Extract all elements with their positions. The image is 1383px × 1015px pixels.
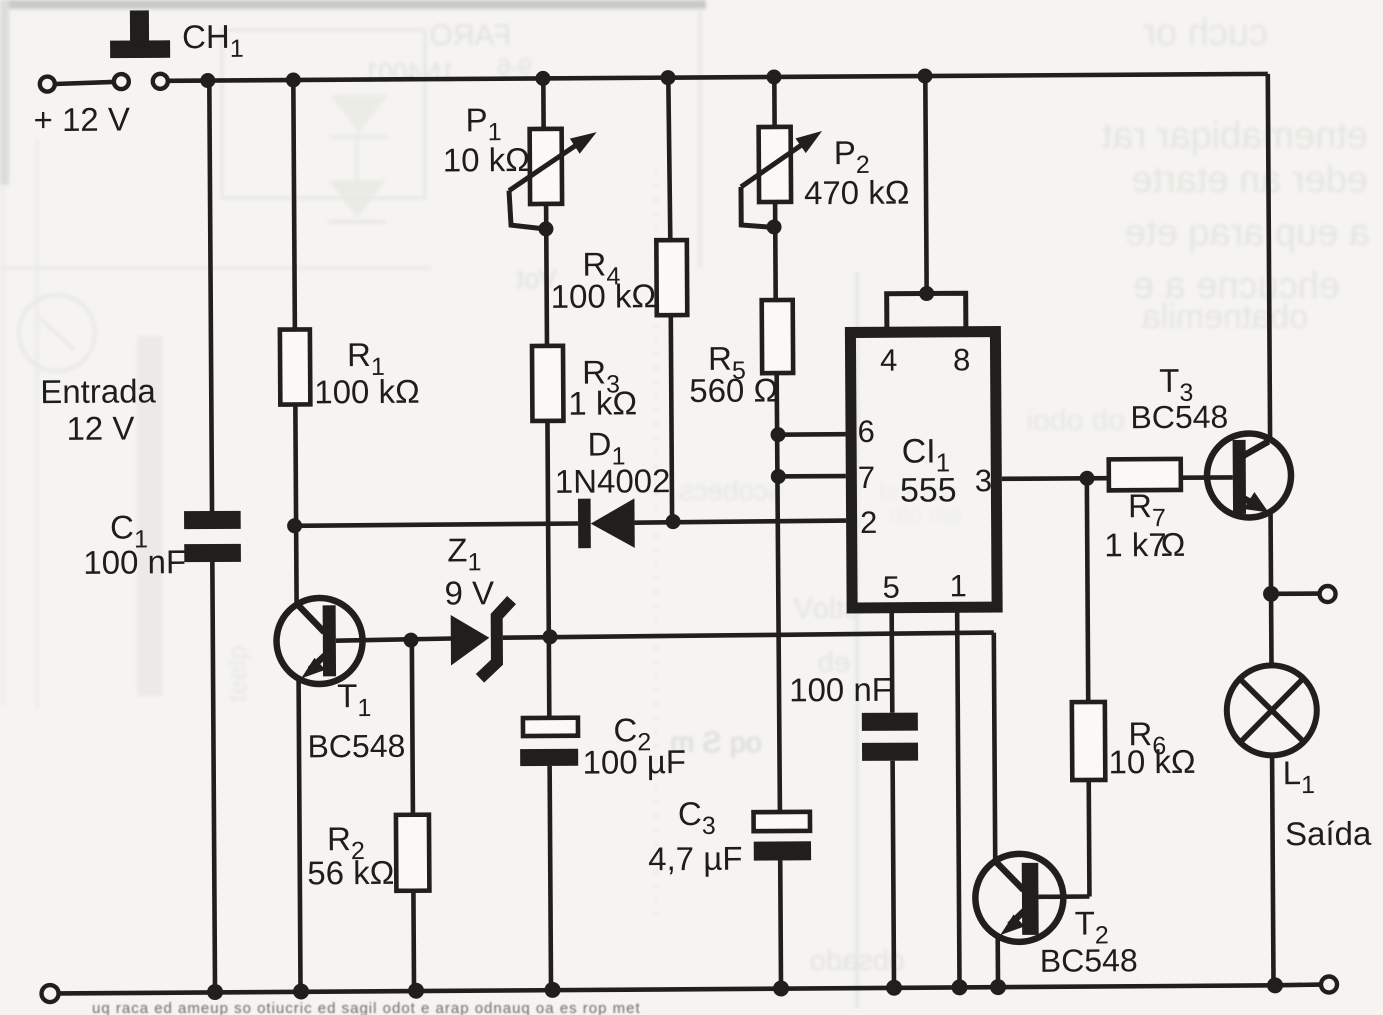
svg-text:10 kΩ: 10 kΩ: [1108, 743, 1195, 781]
svg-text:10 kΩ: 10 kΩ: [443, 141, 530, 179]
svg-text:BC548: BC548: [1130, 399, 1228, 436]
svg-text:obsado: obsado: [810, 945, 905, 977]
svg-text:scobecs: scobecs: [679, 475, 782, 506]
svg-text:FARO: FARO: [429, 19, 511, 52]
svg-text:eder an etarte: eder an etarte: [1131, 159, 1368, 201]
svg-text:etnemabiqar rat: etnemabiqar rat: [1101, 115, 1368, 157]
svg-text:1 k7Ω: 1 k7Ω: [1104, 526, 1185, 564]
svg-text:3: 3: [975, 463, 992, 498]
svg-text:obatnemila: obatnemila: [1142, 298, 1308, 336]
svg-text:1N4002: 1N4002: [555, 462, 671, 500]
svg-text:12 V: 12 V: [66, 409, 134, 446]
svg-text:6: 6: [857, 414, 874, 449]
svg-text:uq raca ed ameup so otiucric e: uq raca ed ameup so otiucric ed sagil od…: [92, 1000, 641, 1015]
svg-text:1 kΩ: 1 kΩ: [568, 384, 637, 421]
svg-text:BC548: BC548: [307, 728, 405, 765]
svg-text:9 V: 9 V: [444, 574, 494, 611]
svg-text:100 µF: 100 µF: [582, 743, 686, 781]
svg-text:2: 2: [860, 505, 877, 540]
svg-text:cuch or: cuch or: [1143, 12, 1268, 54]
svg-text:Saída: Saída: [1285, 815, 1372, 853]
svg-text:8: 8: [953, 342, 970, 377]
svg-text:5: 5: [882, 570, 899, 605]
svg-text:4: 4: [880, 343, 897, 378]
svg-text:4,7 µF: 4,7 µF: [648, 840, 742, 878]
svg-text:100 kΩ: 100 kΩ: [551, 277, 657, 315]
svg-text:100 nF: 100 nF: [789, 671, 892, 709]
svg-text:+ 12 V: + 12 V: [33, 101, 130, 139]
svg-text:Entrada: Entrada: [40, 372, 156, 410]
svg-text:560 Ω: 560 Ω: [689, 371, 778, 409]
svg-text:100 kΩ: 100 kΩ: [314, 373, 420, 411]
svg-text:7: 7: [858, 460, 875, 495]
svg-text:1N4001: 1N4001: [364, 57, 455, 87]
svg-text:BC548: BC548: [1040, 942, 1138, 979]
svg-text:555: 555: [900, 471, 957, 509]
svg-text:teelp: teelp: [222, 646, 252, 702]
svg-text:ob oboi: ob oboi: [1027, 404, 1125, 437]
svg-text:100 nF: 100 nF: [83, 543, 186, 581]
svg-text:56 kΩ: 56 kΩ: [307, 854, 394, 892]
svg-text:1: 1: [949, 568, 966, 603]
svg-text:470 kΩ: 470 kΩ: [804, 174, 910, 212]
svg-text:a eup araq ete: a eup araq ete: [1125, 212, 1370, 254]
